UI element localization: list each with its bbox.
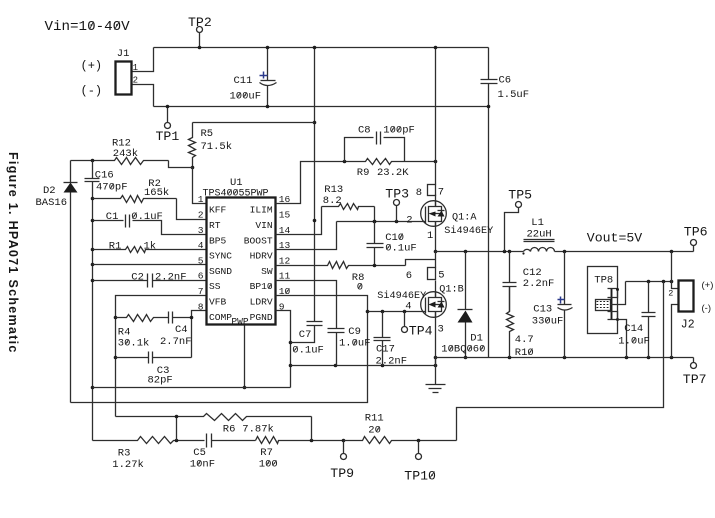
label C9 xyxy=(348,326,361,338)
label Vout xyxy=(587,231,642,246)
label Q1:A part xyxy=(444,225,493,237)
wire Q1A gate xyxy=(337,220,426,224)
svg-text:8: 8 xyxy=(416,187,422,199)
resistor R10 xyxy=(507,287,514,358)
label C7 xyxy=(299,329,312,341)
svg-text:2.7nF: 2.7nF xyxy=(160,336,192,348)
wire injection xyxy=(457,282,664,441)
label R8 value xyxy=(357,282,363,294)
label R10 value2 xyxy=(515,334,534,346)
svg-text:PGND: PGND xyxy=(250,312,273,323)
capacitor C17 xyxy=(374,312,391,366)
label TP1 xyxy=(156,129,180,144)
wire Vout line xyxy=(555,250,694,254)
wire Q1A drain xyxy=(434,46,438,185)
transistor Q1:B xyxy=(421,292,447,318)
svg-text:TP9: TP9 xyxy=(330,466,354,481)
pin number 5 xyxy=(438,270,444,282)
svg-text:Vin=10-40V: Vin=10-40V xyxy=(45,19,131,35)
svg-text:23.2K: 23.2K xyxy=(377,167,409,179)
wire J2 pin2 xyxy=(672,305,679,358)
wire Q1B source xyxy=(435,312,437,366)
svg-text:Si4946EY: Si4946EY xyxy=(377,290,426,302)
svg-text:Q1:B: Q1:B xyxy=(439,284,463,295)
resistor R3 xyxy=(93,437,205,444)
svg-text:100: 100 xyxy=(259,459,278,471)
svg-text:2: 2 xyxy=(406,214,412,226)
svg-text:RT: RT xyxy=(209,220,221,231)
svg-text:2: 2 xyxy=(198,210,204,221)
svg-text:71.5k: 71.5k xyxy=(201,141,233,153)
op-amp U1 TPS40055PWP body xyxy=(198,194,291,327)
svg-text:(+): (+) xyxy=(702,280,714,291)
label D2 value xyxy=(36,197,68,209)
capacitor C11 xyxy=(260,46,277,109)
svg-text:2: 2 xyxy=(668,289,673,299)
resistor R13 xyxy=(276,204,377,235)
svg-text:SGND: SGND xyxy=(209,266,232,277)
svg-text:6: 6 xyxy=(406,270,412,282)
label C10 xyxy=(385,232,404,244)
svg-text:30.1k: 30.1k xyxy=(118,337,150,349)
capacitor C3 xyxy=(116,352,192,364)
resistor R2 xyxy=(93,196,207,220)
testpoint TP8 outline xyxy=(588,267,618,334)
svg-text:2.2nF: 2.2nF xyxy=(523,278,555,290)
svg-text:0: 0 xyxy=(357,282,363,294)
svg-text:(+): (+) xyxy=(81,59,103,73)
label R7 value xyxy=(259,459,278,471)
wire PWP pad xyxy=(243,326,247,390)
label R2 xyxy=(148,178,161,190)
svg-text:2: 2 xyxy=(133,76,138,86)
label R10 xyxy=(515,347,534,359)
wire R5 top xyxy=(193,122,315,124)
pin number 6 xyxy=(406,270,412,282)
label C6 xyxy=(499,75,512,87)
svg-text:10nF: 10nF xyxy=(190,459,215,471)
svg-text:3: 3 xyxy=(438,324,444,336)
svg-text:C1: C1 xyxy=(106,211,119,223)
label C4 value xyxy=(160,336,192,348)
svg-text:20: 20 xyxy=(368,425,381,437)
label R1 value xyxy=(144,241,157,253)
wire power ground rail xyxy=(436,356,694,360)
testpoint TP7 xyxy=(691,358,697,369)
testpoint TP5 xyxy=(505,202,522,252)
label D1 value xyxy=(441,344,485,356)
label C8 xyxy=(358,124,371,136)
label C14 value xyxy=(618,336,650,348)
label L1 xyxy=(531,217,544,229)
wire J2 pin1 xyxy=(672,282,679,289)
resistor R11 xyxy=(344,437,457,444)
label R5 xyxy=(201,128,214,140)
wire TP8 signal xyxy=(611,282,626,305)
svg-text:82pF: 82pF xyxy=(148,374,173,386)
label C1 value xyxy=(131,211,163,223)
svg-text:1: 1 xyxy=(133,63,138,73)
label R8 xyxy=(352,272,365,284)
pin number 2 J2 xyxy=(668,289,673,299)
svg-text:2.2nF: 2.2nF xyxy=(155,271,187,283)
svg-text:TP2: TP2 xyxy=(188,15,212,30)
capacitor C10 xyxy=(367,222,384,266)
label D1 xyxy=(470,333,483,345)
svg-text:U1: U1 xyxy=(230,177,243,189)
testpoint TP8 jack xyxy=(596,288,620,321)
label R5 value xyxy=(201,141,233,153)
pin number 4 Q1B xyxy=(405,301,411,313)
svg-text:7: 7 xyxy=(438,186,444,198)
svg-text:TP6: TP6 xyxy=(684,225,708,240)
svg-text:4: 4 xyxy=(198,240,204,251)
label TP7 xyxy=(683,372,707,387)
wire xyxy=(132,85,154,107)
wire Q1B gate xyxy=(368,310,426,314)
svg-text:D2: D2 xyxy=(43,185,56,197)
label J2 minus xyxy=(702,303,712,314)
wire output link xyxy=(626,280,674,284)
ground xyxy=(426,366,446,393)
svg-text:R10: R10 xyxy=(515,347,534,359)
svg-text:J1: J1 xyxy=(117,48,130,60)
svg-text:R7: R7 xyxy=(260,447,273,459)
svg-text:SW: SW xyxy=(261,266,273,277)
svg-text:VFB: VFB xyxy=(209,297,227,308)
wire LDRV xyxy=(71,296,370,403)
label U1 xyxy=(230,177,243,189)
resistor R12 xyxy=(71,158,169,165)
label TP2 xyxy=(188,15,212,30)
svg-text:0.1uF: 0.1uF xyxy=(292,344,324,356)
label Q1:A xyxy=(452,212,477,223)
diode D2 xyxy=(64,161,78,403)
svg-text:LDRV: LDRV xyxy=(250,297,273,308)
label R9 value xyxy=(377,167,409,179)
svg-text:Q1:A: Q1:A xyxy=(452,212,477,223)
label R11 value xyxy=(368,425,381,437)
wire VFB net xyxy=(114,296,207,417)
resistor R9 xyxy=(343,159,438,165)
label R2 value xyxy=(144,187,169,199)
svg-text:15: 15 xyxy=(279,210,291,221)
svg-text:TP3: TP3 xyxy=(385,187,409,202)
label R6 value xyxy=(242,424,274,436)
pin number 7 xyxy=(438,186,444,198)
label J1 minus xyxy=(81,84,103,98)
svg-text:BOOST: BOOST xyxy=(244,235,273,246)
label C5 value xyxy=(190,459,215,471)
resistor R6 xyxy=(116,414,312,441)
svg-text:6: 6 xyxy=(198,271,204,282)
svg-text:TP7: TP7 xyxy=(683,372,707,387)
label C10 value xyxy=(385,243,417,255)
label R6 xyxy=(223,424,236,436)
label C7 value xyxy=(292,344,324,356)
testpoint TP2 xyxy=(197,27,203,50)
capacitor C8 xyxy=(345,132,405,162)
label C3 value xyxy=(148,374,173,386)
label R4 value xyxy=(118,337,150,349)
svg-text:1: 1 xyxy=(427,230,433,242)
pin number 3 Q1B xyxy=(438,324,444,336)
svg-text:3: 3 xyxy=(198,225,204,236)
label C9 value xyxy=(339,338,371,350)
svg-text:100uF: 100uF xyxy=(230,91,262,103)
label TP5 xyxy=(508,187,532,202)
capacitor C4 xyxy=(169,312,192,324)
testpoint TP4 xyxy=(402,312,408,333)
svg-text:22uH: 22uH xyxy=(527,228,552,240)
resistor R4 xyxy=(116,315,169,322)
connector J2 xyxy=(679,281,694,312)
label Vin xyxy=(45,19,131,35)
wire xyxy=(132,48,154,72)
connector J1 xyxy=(116,62,132,95)
capacitor C6 xyxy=(481,48,498,358)
label C16 value xyxy=(96,182,128,194)
label R9 xyxy=(357,167,370,179)
label C17 value xyxy=(376,356,408,368)
testpoint TP9 xyxy=(341,441,347,460)
wire KFF node xyxy=(169,161,193,168)
svg-text:330uF: 330uF xyxy=(532,316,564,328)
svg-text:C8: C8 xyxy=(358,124,371,136)
svg-text:1.0uF: 1.0uF xyxy=(618,336,650,348)
wire PGND pin9 xyxy=(276,311,293,388)
label C2 xyxy=(131,271,144,283)
svg-text:1.5uF: 1.5uF xyxy=(498,89,530,101)
svg-text:C9: C9 xyxy=(348,326,361,338)
svg-text:ILIM: ILIM xyxy=(250,205,273,216)
svg-text:TP4: TP4 xyxy=(409,324,433,339)
svg-text:12: 12 xyxy=(279,255,291,266)
svg-text:BAS16: BAS16 xyxy=(36,197,68,209)
svg-text:BP5: BP5 xyxy=(209,235,227,246)
label C13 xyxy=(533,304,552,316)
svg-text:Si4946EY: Si4946EY xyxy=(444,225,493,237)
svg-text:1k: 1k xyxy=(144,241,157,253)
label TP4 xyxy=(409,324,433,339)
testpoint TP6 xyxy=(691,240,697,252)
testpoint TP10 xyxy=(416,441,422,460)
svg-text:C6: C6 xyxy=(499,75,512,87)
wire Q1B drain xyxy=(435,252,437,268)
wire KFF pin lead xyxy=(193,168,207,204)
svg-text:KFF: KFF xyxy=(209,205,227,216)
wire VIN vertical xyxy=(313,46,317,322)
svg-text:SS: SS xyxy=(209,281,221,292)
label R13 xyxy=(324,184,343,196)
svg-text:TPS40055PWP: TPS40055PWP xyxy=(203,188,269,199)
wire COMP xyxy=(190,311,207,358)
wire input return rail xyxy=(154,106,489,108)
label C5 xyxy=(193,447,206,459)
svg-text:C17: C17 xyxy=(376,344,395,356)
label J2 plus xyxy=(702,280,714,291)
svg-text:HDRV: HDRV xyxy=(250,251,273,262)
wire HDRV xyxy=(276,222,337,250)
wire J2 vout drop xyxy=(671,252,673,282)
label Q1:B xyxy=(439,284,463,295)
diode D1 xyxy=(458,252,473,360)
svg-text:5: 5 xyxy=(438,270,444,282)
svg-text:C13: C13 xyxy=(533,304,552,316)
svg-text:C5: C5 xyxy=(193,447,206,459)
svg-text:(-): (-) xyxy=(81,84,103,98)
capacitor C1 xyxy=(93,215,207,235)
svg-text:R5: R5 xyxy=(201,128,214,140)
pin number 2 Q1A xyxy=(406,214,412,226)
label C16 xyxy=(95,169,114,181)
svg-text:PWP: PWP xyxy=(231,316,249,327)
svg-text:8.2: 8.2 xyxy=(323,195,342,207)
resistor R5 xyxy=(189,123,196,170)
svg-text:2.2nF: 2.2nF xyxy=(376,356,408,368)
svg-text:C7: C7 xyxy=(299,329,312,341)
pins 8 7 Q1A xyxy=(428,185,436,207)
svg-text:VIN: VIN xyxy=(255,220,272,231)
capacitor C9 xyxy=(276,281,345,366)
label R12 value xyxy=(113,148,138,160)
svg-text:1.27k: 1.27k xyxy=(112,459,144,471)
label Q1:B part xyxy=(377,290,426,302)
label figure caption xyxy=(6,152,20,354)
svg-text:0.1uF: 0.1uF xyxy=(385,243,417,255)
label C6 value xyxy=(498,89,530,101)
pins 6 5 Q1B xyxy=(428,268,436,298)
label C1 xyxy=(106,211,119,223)
wire phase node xyxy=(436,250,524,254)
wire top input rail xyxy=(154,47,489,49)
svg-text:Figure 1. HPA071 Schematic: Figure 1. HPA071 Schematic xyxy=(6,152,20,354)
label C12 value xyxy=(523,278,555,290)
label TP10 xyxy=(404,469,436,484)
resistor R1 xyxy=(93,247,207,253)
svg-text:J2: J2 xyxy=(681,319,695,332)
label D2 xyxy=(43,185,56,197)
label C2 value xyxy=(155,271,187,283)
wire analog ground rail xyxy=(93,387,291,389)
label C14 xyxy=(624,323,643,335)
label J1 xyxy=(117,48,130,60)
pin number 2 J1 xyxy=(133,76,138,86)
capacitor C16 xyxy=(85,161,100,199)
label R1 xyxy=(109,241,122,253)
wire PGND link xyxy=(291,356,438,368)
svg-text:R9: R9 xyxy=(357,167,370,179)
pin number 1 J1 xyxy=(133,63,138,73)
label U1 part number xyxy=(203,188,269,199)
capacitor C12 xyxy=(503,252,517,312)
svg-text:Vout=5V: Vout=5V xyxy=(587,231,642,246)
svg-text:470pF: 470pF xyxy=(96,182,128,194)
label TP3 xyxy=(385,187,409,202)
label C13 value xyxy=(532,316,564,328)
label TP6 xyxy=(684,225,708,240)
label R4 xyxy=(118,327,131,339)
label C17 xyxy=(376,344,395,356)
label C11 value xyxy=(230,91,262,103)
label R3 value xyxy=(112,459,144,471)
svg-text:5: 5 xyxy=(198,255,204,266)
svg-text:7.87k: 7.87k xyxy=(242,424,274,436)
capacitor C13 xyxy=(558,252,573,358)
capacitor C7 xyxy=(291,322,323,343)
pin number 8 xyxy=(416,187,422,199)
label C8 value xyxy=(383,124,415,136)
svg-text:165k: 165k xyxy=(144,187,169,199)
wire SGND xyxy=(93,264,207,266)
svg-text:(-): (-) xyxy=(702,303,712,314)
label R12 xyxy=(112,137,131,149)
svg-text:R3: R3 xyxy=(118,448,131,460)
resistor R7 xyxy=(256,437,346,444)
svg-text:C16: C16 xyxy=(95,169,114,181)
svg-text:TP1: TP1 xyxy=(156,129,180,144)
wire ground bus xyxy=(91,197,95,441)
transistor Q1:A xyxy=(421,201,447,227)
svg-text:C11: C11 xyxy=(234,75,253,87)
svg-text:C4: C4 xyxy=(175,324,188,336)
resistor R8 xyxy=(276,260,436,269)
label C11 xyxy=(234,75,253,87)
svg-text:SYNC: SYNC xyxy=(209,251,232,262)
svg-text:TP5: TP5 xyxy=(508,187,532,202)
inductor L1 xyxy=(522,240,554,255)
wire TP8 ground xyxy=(618,320,627,358)
svg-text:7: 7 xyxy=(198,286,204,297)
wire Q1A source xyxy=(434,222,438,254)
svg-text:100pF: 100pF xyxy=(383,124,415,136)
svg-text:4: 4 xyxy=(405,301,411,313)
label C3 xyxy=(157,365,170,377)
svg-text:C14: C14 xyxy=(624,323,643,335)
label R13 value xyxy=(323,195,342,207)
svg-text:C2: C2 xyxy=(131,271,144,283)
svg-text:TP8: TP8 xyxy=(594,275,613,287)
label TP9 xyxy=(330,466,354,481)
testpoint TP1 xyxy=(165,105,171,129)
capacitor C2 xyxy=(93,274,207,288)
label C12 xyxy=(523,267,542,279)
svg-text:R1: R1 xyxy=(109,241,122,253)
label R11 xyxy=(365,413,384,425)
capacitor C5 xyxy=(207,434,256,448)
capacitor C14 xyxy=(642,282,656,358)
svg-text:R6: R6 xyxy=(223,424,236,436)
wire ILIM xyxy=(276,162,345,204)
label J2 xyxy=(681,319,695,332)
svg-text:4.7: 4.7 xyxy=(515,334,534,346)
label L1 value xyxy=(527,228,552,240)
pin number 1 Q1A xyxy=(427,230,433,242)
svg-text:243k: 243k xyxy=(113,148,138,160)
label R7 xyxy=(260,447,273,459)
svg-text:8: 8 xyxy=(198,301,204,312)
svg-text:10BQ060: 10BQ060 xyxy=(441,344,485,356)
testpoint TP3 xyxy=(394,200,400,222)
label J1 plus xyxy=(81,59,103,73)
svg-text:R11: R11 xyxy=(365,413,384,425)
svg-text:COMP: COMP xyxy=(209,312,232,323)
label R3 xyxy=(118,448,131,460)
label C4 xyxy=(175,324,188,336)
label TP8 xyxy=(594,275,613,287)
